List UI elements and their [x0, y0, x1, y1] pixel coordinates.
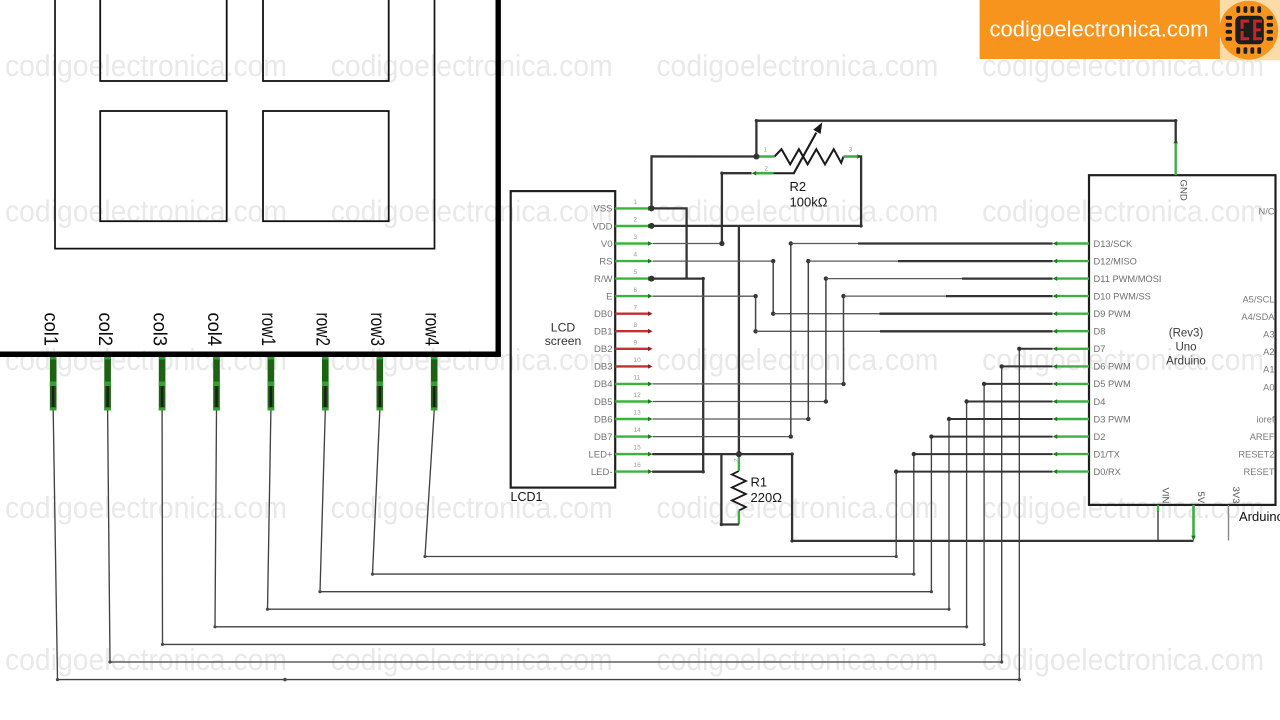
bendpoint on col1 bottom wire — [283, 678, 287, 682]
svg-text:D0/RX: D0/RX — [1094, 467, 1121, 477]
svg-text:codigoelectronica.com: codigoelectronica.com — [982, 642, 1264, 677]
keypad outer border right edge — [496, 0, 501, 357]
Arduino pin D1/TX — [1056, 453, 1089, 455]
svg-text:codigoelectronica.com: codigoelectronica.com — [331, 642, 613, 677]
svg-text:DB4: DB4 — [594, 379, 612, 390]
keypad button row1 col1 (cropped top) — [100, 0, 227, 81]
resistor R1 220ohm zigzag body — [732, 471, 746, 511]
wire R/W to LED- (ground) — [652, 279, 704, 472]
keypad inner frame — [55, 0, 435, 249]
svg-text:codigoelectronica.com: codigoelectronica.com — [5, 48, 287, 83]
svg-text:col2: col2 — [94, 313, 115, 347]
wire keypad row3 to Arduino D1/TX — [373, 411, 914, 575]
keypad pin row4 (green header pin) — [431, 357, 438, 411]
R2 pin 2 wiper stub — [755, 172, 773, 175]
svg-text:220Ω: 220Ω — [751, 490, 783, 505]
svg-text:N/C: N/C — [1258, 207, 1274, 217]
Arduino pin D3 PWM — [1056, 418, 1089, 420]
svg-text:RESET: RESET — [1244, 467, 1275, 477]
svg-text:D9 PWM: D9 PWM — [1094, 309, 1131, 319]
keypad pin col1 (green header pin) — [50, 357, 57, 411]
keypad outer border bottom edge — [0, 351, 501, 357]
svg-text:AREF: AREF — [1250, 432, 1275, 442]
wire keypad col1 to Arduino D7 — [53, 349, 1019, 680]
svg-text:VIN: VIN — [1160, 488, 1171, 504]
LCD pin 1 VSS — [615, 207, 649, 209]
svg-text:LCD: LCD — [551, 320, 576, 334]
keypad button row1 col2 (cropped top) — [263, 0, 389, 81]
svg-text:D5 PWM: D5 PWM — [1094, 379, 1131, 389]
LCD pin 9 DB2 — [615, 348, 649, 350]
keypad pin col2 (green header pin) — [104, 357, 111, 411]
potentiometer R2 100k zigzag body — [775, 149, 844, 164]
svg-text:R2: R2 — [790, 179, 807, 194]
svg-text:100kΩ: 100kΩ — [790, 195, 828, 210]
LCD pin 5 R/W — [615, 277, 649, 279]
svg-text:10: 10 — [634, 357, 642, 364]
LCD pin 11 DB4 — [615, 383, 649, 385]
Arduino pin D5 PWM — [1056, 383, 1089, 385]
LCD pin 4 RS — [615, 260, 649, 262]
svg-text:DB1: DB1 — [594, 327, 612, 338]
LCD pin 3 V0 — [615, 242, 649, 244]
svg-text:5V: 5V — [1195, 492, 1206, 504]
svg-text:4: 4 — [634, 252, 638, 259]
svg-text:RESET2: RESET2 — [1238, 449, 1274, 459]
junction R2 pin1 / VSS / GND — [753, 154, 759, 160]
keypad pin row1 (green header pin) — [268, 357, 275, 411]
Arduino pin D4 — [1056, 400, 1089, 402]
svg-text:2: 2 — [634, 217, 638, 224]
svg-text:LCD1: LCD1 — [511, 490, 543, 504]
svg-text:codigoelectronica.com: codigoelectronica.com — [982, 490, 1264, 525]
svg-text:A0: A0 — [1263, 382, 1274, 392]
wire V0 to R2 wiper — [653, 243, 722, 245]
Arduino pin D9 PWM — [1056, 313, 1089, 315]
svg-text:8: 8 — [634, 322, 638, 329]
Arduino pin D6 PWM — [1056, 365, 1089, 367]
svg-text:LED-: LED- — [591, 467, 613, 478]
svg-text:Arduino: Arduino — [1239, 509, 1280, 524]
svg-text:R1: R1 — [751, 475, 768, 490]
svg-text:(Rev3): (Rev3) — [1169, 328, 1204, 340]
keypad pin col3 (green header pin) — [159, 357, 166, 411]
svg-text:D1/TX: D1/TX — [1094, 449, 1120, 459]
LCD1 LCD screen component box — [511, 191, 616, 488]
svg-text:codigoelectronica.com: codigoelectronica.com — [5, 342, 287, 377]
R1 pin 2 (top) — [738, 456, 740, 471]
LCD pin 8 DB1 — [615, 330, 649, 332]
svg-text:A1: A1 — [1263, 365, 1274, 375]
LCD pin 16 LED- — [615, 470, 649, 472]
wire keypad col3 to Arduino D5 — [162, 384, 984, 645]
svg-text:D4: D4 — [1094, 397, 1106, 407]
R2 pin 1 (left) — [756, 155, 774, 158]
svg-text:V0: V0 — [601, 239, 613, 250]
svg-text:6: 6 — [634, 287, 638, 294]
LCD pin 14 DB7 — [615, 435, 649, 437]
svg-text:D7: D7 — [1094, 344, 1106, 354]
svg-text:codigoelectronica.com: codigoelectronica.com — [656, 342, 938, 377]
svg-text:1: 1 — [634, 199, 638, 206]
Arduino pin D12/MISO — [1056, 260, 1089, 262]
R2 wiper arrow — [773, 172, 794, 174]
wire keypad col4 to Arduino D4 — [215, 402, 967, 627]
Arduino pin 3V3 (bottom) — [1228, 505, 1230, 541]
junction R1 top / LED+ / 5V — [736, 451, 742, 457]
Arduino pin 5V (bottom) — [1192, 505, 1195, 537]
wire LED+ to junction — [652, 453, 739, 455]
svg-text:DB0: DB0 — [594, 309, 612, 320]
Arduino pin D8 — [1056, 330, 1089, 332]
svg-text:12: 12 — [634, 392, 642, 399]
Arduino pin VIN (bottom) — [1157, 505, 1159, 541]
R1 pin 1 (bottom) — [738, 511, 740, 525]
svg-text:16: 16 — [634, 462, 642, 469]
Arduino pin D10 PWM/SS — [1056, 295, 1089, 297]
R2 pin 3 (right) — [844, 155, 859, 158]
junction VSS — [649, 205, 655, 211]
svg-text:R/W: R/W — [594, 274, 613, 285]
svg-text:row1: row1 — [257, 313, 278, 347]
LCD pin 12 DB5 — [615, 400, 649, 402]
svg-text:codigoelectronica.com: codigoelectronica.com — [331, 490, 613, 525]
LCD pin 7 DB0 — [615, 313, 649, 315]
svg-text:row4: row4 — [421, 313, 442, 347]
svg-text:GND: GND — [1178, 180, 1189, 201]
Arduino pin D7 — [1056, 348, 1089, 350]
banner codigoelectronica.com — [980, 0, 1220, 59]
svg-text:col1: col1 — [40, 313, 61, 347]
LCD pin 10 DB3 — [615, 365, 649, 367]
svg-text:A5/SCL: A5/SCL — [1242, 295, 1274, 305]
LCD pin 2 VDD — [615, 225, 649, 227]
svg-text:codigoelectronica.com: codigoelectronica.com — [5, 490, 287, 525]
wire DB7 to Arduino D13 — [653, 436, 791, 438]
svg-text:A4/SDA: A4/SDA — [1241, 312, 1275, 322]
svg-text:D10 PWM/SS: D10 PWM/SS — [1094, 291, 1151, 301]
svg-text:codigoelectronica.com: codigoelectronica.com — [982, 342, 1264, 377]
keypad pin col4 (green header pin) — [213, 357, 220, 411]
LCD pin 15 LED+ — [615, 453, 649, 455]
wire DB4 to Arduino D10 — [653, 383, 844, 385]
keypad button row2 col1 — [100, 111, 227, 221]
Arduino pin GND (top) — [1174, 143, 1176, 176]
svg-text:DB6: DB6 — [594, 414, 612, 425]
Arduino pin D13/SCK — [1056, 242, 1089, 244]
svg-text:DB5: DB5 — [594, 397, 612, 408]
svg-text:A2: A2 — [1263, 347, 1274, 357]
LCD pin 6 E — [615, 295, 649, 297]
svg-text:E: E — [606, 291, 612, 302]
svg-text:codigoelectronica.com: codigoelectronica.com — [656, 642, 938, 677]
svg-text:DB7: DB7 — [594, 432, 612, 443]
svg-text:D8: D8 — [1094, 327, 1106, 337]
svg-text:11: 11 — [634, 375, 641, 382]
svg-text:15: 15 — [634, 445, 642, 452]
svg-text:codigoelectronica.com: codigoelectronica.com — [990, 17, 1209, 42]
keypad button row2 col2 — [263, 111, 389, 221]
svg-text:codigoelectronica.com: codigoelectronica.com — [656, 48, 938, 83]
svg-text:14: 14 — [634, 427, 642, 434]
wire keypad row2 to Arduino D2 — [320, 411, 931, 592]
wire VDD rail down to R1 top junction — [738, 226, 740, 454]
svg-text:VSS: VSS — [593, 204, 612, 215]
svg-text:codigoelectronica.com: codigoelectronica.com — [331, 48, 613, 83]
junction VDD — [649, 223, 655, 229]
wire E to Arduino D8 — [653, 295, 756, 297]
svg-text:Arduino: Arduino — [1166, 356, 1206, 368]
svg-text:5: 5 — [634, 269, 638, 276]
svg-text:7: 7 — [634, 304, 638, 311]
wire keypad col2 to Arduino D6 — [108, 366, 1002, 662]
svg-text:DB2: DB2 — [594, 344, 612, 355]
wire DB5 to Arduino D11 — [653, 401, 826, 403]
wire keypad row4 to Arduino D0/RX — [425, 411, 896, 557]
svg-text:VDD: VDD — [592, 221, 612, 232]
svg-text:13: 13 — [634, 410, 642, 417]
svg-text:LED+: LED+ — [588, 449, 612, 460]
svg-text:ioref: ioref — [1256, 414, 1275, 424]
wire RS to Arduino D9 — [653, 260, 774, 262]
wire junction to Arduino 5V — [739, 454, 1194, 541]
wire DB6 to Arduino D12 — [653, 418, 809, 420]
svg-text:RS: RS — [599, 256, 612, 267]
svg-text:D6 PWM: D6 PWM — [1094, 362, 1131, 372]
Arduino U1 Uno (Rev3) component box — [1089, 175, 1276, 505]
svg-text:codigoelectronica.com: codigoelectronica.com — [5, 194, 287, 229]
svg-text:row2: row2 — [312, 313, 333, 347]
svg-text:codigoelectronica.com: codigoelectronica.com — [5, 642, 287, 677]
LCD pin 13 DB6 — [615, 418, 649, 420]
svg-text:D12/MISO: D12/MISO — [1094, 256, 1137, 266]
svg-text:Uno: Uno — [1175, 342, 1196, 354]
wire GND: R2 pin1 junction up to top rail, right to Arduino GND — [756, 121, 1175, 157]
wire VDD to R2 pin3 — [652, 156, 862, 226]
svg-text:col3: col3 — [148, 313, 169, 347]
svg-text:D2: D2 — [1094, 432, 1106, 442]
svg-text:codigoelectronica.com: codigoelectronica.com — [331, 194, 613, 229]
svg-text:A3: A3 — [1263, 330, 1274, 340]
svg-text:screen: screen — [545, 334, 582, 348]
wire VSS to R2 pin1 junction — [652, 156, 757, 208]
svg-text:col4: col4 — [203, 313, 224, 347]
junction R/W — [649, 276, 655, 282]
svg-text:3: 3 — [634, 234, 638, 241]
Arduino pin D0/RX — [1056, 470, 1089, 472]
keypad pin row2 (green header pin) — [322, 357, 329, 411]
logo chip CE — [1219, 1, 1278, 60]
Arduino pin D11 PWM/MOSI — [1056, 277, 1089, 279]
Arduino pin D2 — [1056, 435, 1089, 437]
svg-text:row3: row3 — [366, 313, 387, 347]
keypad pin row3 (green header pin) — [377, 357, 384, 411]
svg-text:codigoelectronica.com: codigoelectronica.com — [982, 194, 1264, 229]
svg-text:D11 PWM/MOSI: D11 PWM/MOSI — [1094, 274, 1162, 284]
wire keypad row1 to Arduino D3 — [268, 411, 950, 610]
svg-text:D13/SCK: D13/SCK — [1094, 239, 1134, 249]
wire R1 bottom to LED+ line — [721, 454, 739, 524]
wire VSS to R/W — [652, 208, 687, 278]
svg-text:9: 9 — [634, 339, 638, 346]
svg-text:D3 PWM: D3 PWM — [1094, 414, 1131, 424]
svg-text:DB3: DB3 — [594, 362, 612, 373]
svg-text:3V3: 3V3 — [1230, 487, 1241, 504]
